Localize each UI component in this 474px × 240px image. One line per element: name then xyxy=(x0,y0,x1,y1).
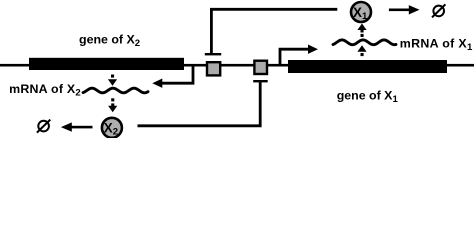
dashed arrow translation mRNA X2 to protein X2 xyxy=(111,98,114,101)
dashed arrow transcription gene X1 to mRNA X1 xyxy=(357,45,366,52)
wire repression X2 to right operator (corner path) xyxy=(138,82,261,126)
gene of X2 box xyxy=(29,58,184,70)
arrow X2 degradation xyxy=(71,126,93,129)
wire repression X1 to left operator (corner path) xyxy=(211,9,337,53)
arrow X1 degradation xyxy=(389,9,410,12)
empty-set symbol bottom xyxy=(37,120,50,133)
mRNA X2 wavy line xyxy=(83,88,148,93)
arrow transcription start gene X1 (bent arrow) xyxy=(280,49,310,65)
arrow transcription start gene X2 (bent arrow, points left) xyxy=(162,66,194,83)
wire DNA line xyxy=(0,64,474,67)
dashed arrow transcription gene X2 to mRNA X2 xyxy=(111,75,114,78)
protein X2 circle xyxy=(102,118,122,138)
mRNA X1 wavy line xyxy=(333,40,396,45)
operator O1 (right gray square) xyxy=(254,61,267,74)
operator O2 (left gray square) xyxy=(207,62,220,75)
protein X1 circle xyxy=(351,2,371,22)
T-bar repression on left operator xyxy=(205,53,221,55)
T-bar repression on right operator xyxy=(253,80,268,82)
empty-set symbol top xyxy=(432,4,445,17)
dashed arrow translation mRNA X1 to protein X1 xyxy=(357,24,366,31)
gene of X1 box xyxy=(288,60,447,73)
